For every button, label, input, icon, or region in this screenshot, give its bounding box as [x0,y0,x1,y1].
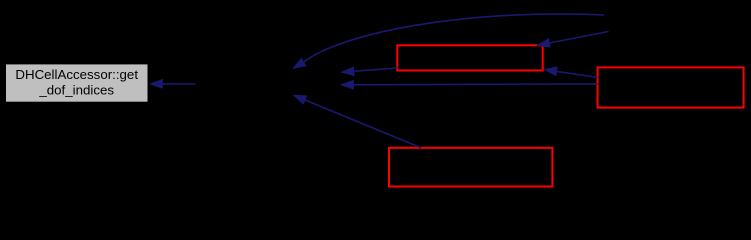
svg-text:DHCellAccessor::get: DHCellAccessor::get [15,67,138,82]
svg-text:_dof_indices: _dof_indices [38,82,114,97]
